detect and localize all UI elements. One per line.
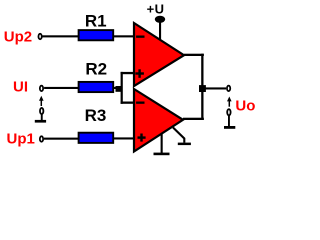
wire Up1 to R3: [44, 138, 79, 140]
ground 2 (op-amp U2 right): [173, 128, 184, 143]
ground 1 (below op-amp U2): [161, 134, 163, 153]
terminal Uo lower: [227, 109, 230, 115]
wire R3 to bottom op-amp plus input: [114, 137, 135, 139]
op-amp U1 (top comparator): [134, 23, 184, 86]
wire bracket vertical: [121, 72, 123, 104]
ground Uo source: [228, 115, 230, 126]
terminal Up2: [38, 34, 41, 40]
svg-text:+U: +U: [147, 1, 165, 16]
wire op-amp U1 output: [184, 54, 204, 56]
voltage arrow Uo: [227, 97, 232, 107]
terminal UI lower: [40, 108, 43, 114]
junction input bracket: [116, 86, 122, 92]
wire R1 to top op-amp minus input: [114, 35, 135, 37]
wire R2 to junction: [113, 87, 121, 89]
op-amp U2 minus sign: [136, 102, 144, 104]
svg-text:Uo: Uo: [235, 97, 255, 114]
op-amp U1 minus sign: [136, 36, 144, 38]
op-amp U2 plus sign: [138, 136, 146, 138]
wire UI to R2: [44, 87, 79, 89]
wire Up2 to R1: [43, 35, 79, 37]
resistor R2: [79, 82, 114, 92]
terminal UI: [40, 86, 43, 92]
terminal Uo: [227, 86, 230, 92]
op-amp U1 plus sign: [135, 72, 144, 74]
wire +U to op-amp 1: [159, 22, 161, 41]
voltage arrow UI: [39, 96, 44, 106]
svg-text:UI: UI: [13, 79, 28, 96]
svg-text:R2: R2: [85, 60, 107, 79]
power +U terminal: [155, 16, 165, 23]
wire op-amp U2 output: [183, 118, 204, 120]
op-amp U2 (bottom comparator): [134, 89, 183, 152]
wire bracket bottom stub to op-amp 2 minus: [121, 102, 135, 104]
wire output vertical: [201, 54, 203, 120]
terminal Up1: [40, 136, 43, 142]
wire bracket top stub to op-amp 1 plus: [121, 72, 135, 74]
svg-text:Up1: Up1: [7, 130, 35, 147]
resistor R3: [79, 133, 114, 143]
svg-text:R1: R1: [85, 12, 107, 31]
ground UI source: [41, 114, 43, 120]
junction output node: [199, 85, 206, 92]
svg-text:Up2: Up2: [4, 28, 32, 45]
wire junction to Uo: [204, 87, 227, 89]
svg-text:R3: R3: [85, 106, 107, 125]
resistor R1: [79, 30, 114, 40]
